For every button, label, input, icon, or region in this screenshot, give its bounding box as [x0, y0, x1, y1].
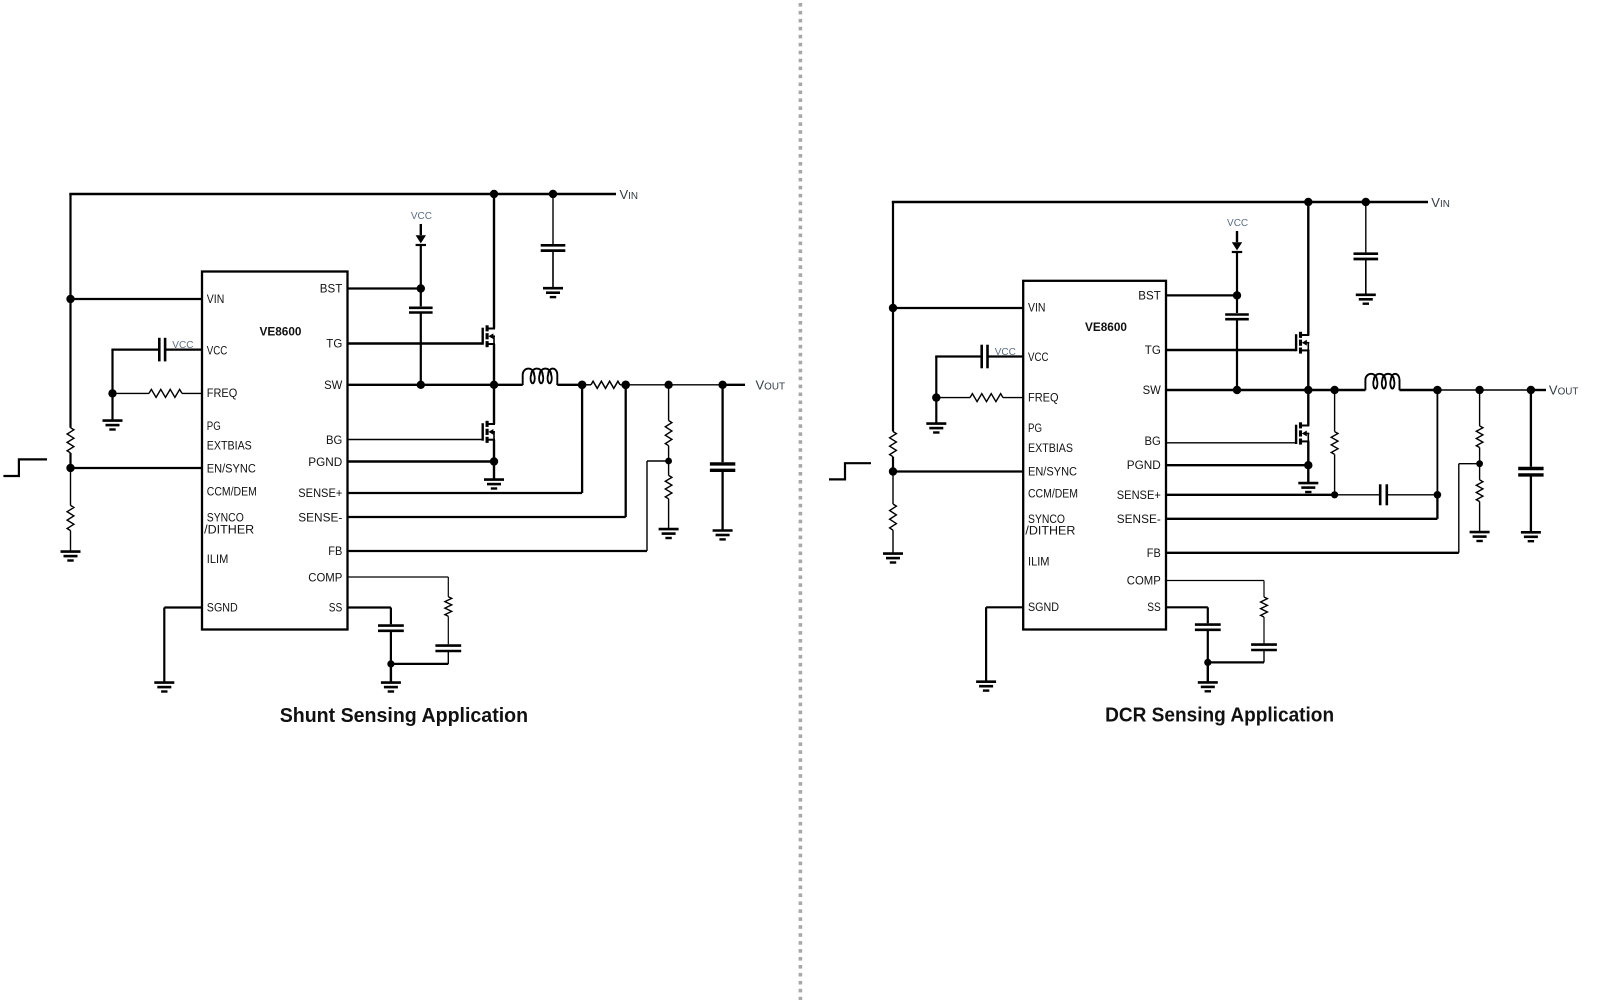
svg-text:VIN: VIN: [620, 187, 639, 202]
svg-text:SGND: SGND: [207, 603, 238, 615]
svg-text:VIN: VIN: [1431, 195, 1450, 210]
svg-text:PG: PG: [1028, 423, 1042, 435]
svg-text:Shunt Sensing Application: Shunt Sensing Application: [280, 705, 528, 727]
svg-text:PGND: PGND: [308, 457, 342, 469]
left shunt circuit: wire SW: [348, 384, 523, 386]
left shunt circuit: wire VOUT node: [626, 384, 723, 386]
svg-text:SGND: SGND: [1028, 602, 1059, 614]
right DCR circuit: resistor R-FREQ: [936, 397, 970, 399]
right DCR circuit: capacitor C-IN (input cap): [1362, 198, 1370, 206]
right DCR circuit: op-amp/controller U1 VE8600 box: [1023, 281, 1166, 630]
left shunt circuit: wire SS: [348, 606, 391, 608]
left shunt circuit: capacitor C-IN (input cap): [549, 190, 557, 198]
right DCR circuit: wire SS: [1166, 606, 1208, 608]
right DCR circuit: node SW junctions: [1233, 386, 1241, 394]
svg-text:BST: BST: [320, 284, 343, 296]
left shunt circuit: wire Q2 drain to SW: [493, 385, 495, 424]
left shunt circuit: ground C-IN: [543, 288, 563, 297]
svg-text:FB: FB: [328, 546, 342, 558]
svg-text:CCM/DEM: CCM/DEM: [207, 486, 257, 498]
right DCR circuit: diode D1 from VCC: [1236, 231, 1238, 242]
right DCR circuit: wire FB: [1166, 552, 1459, 554]
svg-text:COMP: COMP: [1127, 576, 1161, 588]
svg-text:VIN: VIN: [207, 294, 225, 306]
left shunt circuit: wire Q1 source to SW: [493, 344, 495, 385]
svg-text:BG: BG: [326, 435, 342, 447]
right DCR circuit: wire Q2 source to PGND: [1307, 441, 1309, 465]
svg-text:SYNCO: SYNCO: [207, 512, 244, 524]
right DCR circuit: node C-DCR / SENSE- junction: [1434, 491, 1442, 499]
left shunt circuit: wire SENSE-: [348, 516, 626, 518]
left shunt circuit: left vertical wire from VIN rail: [69, 194, 71, 428]
left shunt circuit: wire SENSE+ riser: [581, 385, 583, 493]
svg-text:/DITHER: /DITHER: [1025, 525, 1075, 537]
right DCR circuit: resistor R-COMP: [1263, 581, 1265, 598]
right DCR circuit: wire EN/SYNC: [893, 470, 1023, 472]
right DCR circuit: wire SENSE+: [1166, 494, 1335, 496]
page separator dashed line: [799, 3, 803, 1000]
left shunt circuit: resistor R-COMP: [447, 577, 449, 597]
svg-text:TG: TG: [326, 339, 342, 351]
left shunt circuit: node FREQ junction: [108, 389, 116, 397]
left shunt circuit: resistor R-SENSE (shunt): [591, 381, 620, 388]
svg-text:VCC: VCC: [1028, 352, 1049, 364]
right DCR circuit: wire COMP network to SS node: [1207, 661, 1264, 663]
left shunt circuit: inductor L1: [523, 369, 558, 385]
right DCR circuit: wire SW: [1166, 389, 1365, 391]
right DCR circuit: resistor R-EN2 (lower EN divider): [892, 472, 894, 505]
left shunt circuit: transistor Q2 (low-side NMOS): [482, 423, 484, 441]
left shunt circuit: node Q1 drain at rail: [490, 190, 498, 198]
left shunt circuit: wire VCC corner down: [111, 350, 113, 394]
svg-text:COMP: COMP: [308, 572, 342, 584]
left shunt circuit: node output cap junction: [718, 381, 726, 389]
right DCR circuit: wire SENSE-: [1166, 518, 1437, 520]
left shunt circuit: VIN rail: [69, 193, 616, 195]
right DCR circuit: resistor R-DCR sense: [1334, 390, 1336, 432]
svg-text:VOUT: VOUT: [756, 378, 786, 393]
svg-text:FB: FB: [1147, 548, 1161, 560]
right DCR circuit: ground PGND: [1307, 465, 1309, 483]
left shunt circuit: wire BST: [348, 287, 421, 289]
right DCR circuit: node FREQ junction: [932, 393, 940, 401]
svg-text:SS: SS: [329, 603, 343, 615]
svg-text:FREQ: FREQ: [1028, 393, 1059, 405]
left shunt circuit: wire SENSE- riser: [625, 385, 627, 517]
left shunt circuit: ground PGND: [493, 462, 495, 480]
svg-text:SENSE-: SENSE-: [1117, 514, 1161, 526]
left shunt circuit: resistor R-FB2 (lower divider): [668, 461, 670, 475]
right DCR circuit: node Q1 drain at rail: [1304, 198, 1312, 206]
left shunt circuit: resistor R-EN1 (upper EN divider): [67, 428, 74, 453]
left shunt circuit: ground SS node: [390, 664, 392, 683]
svg-text:VE8600: VE8600: [260, 325, 302, 339]
left shunt circuit: node BST junction: [417, 284, 425, 292]
svg-text:EN/SYNC: EN/SYNC: [1028, 467, 1077, 479]
right DCR circuit: ground C-IN: [1356, 295, 1376, 304]
right DCR circuit: wire Q2 drain to SW: [1307, 390, 1309, 426]
right DCR circuit: wire VCC corner down: [935, 357, 937, 398]
svg-text:SW: SW: [324, 380, 342, 392]
left shunt circuit: capacitor C-VCC: [111, 349, 159, 351]
left shunt circuit: wire TG: [348, 342, 483, 344]
left shunt circuit: wire VIN pin: [71, 298, 203, 300]
right DCR circuit: wire VOUT stub: [1531, 389, 1546, 391]
left shunt circuit: capacitor C-SS: [390, 608, 392, 625]
svg-text:EXTBIAS: EXTBIAS: [1028, 443, 1073, 455]
left shunt circuit: op-amp/controller U1 VE8600 box: [202, 272, 348, 630]
right DCR circuit: node EN/SYNC junction: [889, 467, 897, 475]
svg-text:SENSE-: SENSE-: [298, 512, 342, 524]
left shunt circuit: capacitor C-BST: [420, 289, 422, 307]
left shunt circuit: ground C-OUT: [713, 531, 733, 540]
svg-text:PG: PG: [207, 421, 221, 433]
right DCR circuit: pulse source symbol (EN drive): [829, 463, 871, 479]
right DCR circuit: resistor R-EN1 (upper EN divider): [890, 432, 897, 457]
svg-text:SENSE+: SENSE+: [298, 488, 342, 500]
right DCR circuit: node divider junction: [1475, 386, 1483, 394]
right DCR circuit: ground divider: [1470, 532, 1490, 541]
right DCR circuit: wire PGND: [1166, 464, 1308, 466]
right DCR circuit: capacitor C-SS: [1207, 607, 1209, 623]
svg-text:SS: SS: [1147, 602, 1161, 614]
right DCR circuit: wire SGND: [986, 606, 1023, 608]
left shunt circuit: node sense- junction (VOUT node): [621, 381, 630, 390]
left shunt circuit: wire COMP: [348, 576, 449, 578]
right DCR circuit: wire VOUT node: [1437, 389, 1531, 391]
left shunt circuit: wire Q2 source to PGND: [493, 440, 495, 462]
right DCR circuit: left vertical wire from VIN rail: [892, 202, 894, 432]
right DCR circuit: node BST junction: [1233, 291, 1241, 299]
left shunt circuit: ground at FREQ node: [111, 393, 113, 420]
left shunt circuit: resistor R-FREQ: [113, 392, 150, 394]
right DCR circuit: resistor R-FB1 (upper divider): [1479, 390, 1481, 426]
right DCR circuit: node DCR R-C junction: [1331, 491, 1338, 498]
svg-text:VIN: VIN: [1028, 302, 1046, 314]
right DCR circuit: node VIN-pin junction: [889, 304, 897, 312]
svg-text:EXTBIAS: EXTBIAS: [207, 440, 252, 452]
left shunt circuit: node SW junctions: [417, 381, 425, 389]
left shunt circuit: pulse source symbol (EN drive): [3, 459, 47, 476]
svg-text:ILIM: ILIM: [1028, 557, 1050, 569]
left shunt circuit: diode D1 from VCC: [420, 224, 422, 235]
left shunt circuit: capacitor C-OUT: [721, 385, 723, 462]
svg-text:VCC: VCC: [1227, 218, 1248, 229]
right DCR circuit: ground EN divider: [883, 554, 903, 563]
svg-text:ILIM: ILIM: [207, 554, 229, 566]
left shunt circuit: node SS/COMP junction: [387, 660, 394, 667]
svg-text:BG: BG: [1145, 436, 1161, 448]
svg-text:DCR Sensing Application: DCR Sensing Application: [1105, 705, 1334, 727]
right DCR circuit: ground SGND: [976, 682, 996, 691]
svg-text:VCC: VCC: [172, 340, 193, 351]
svg-text:FREQ: FREQ: [207, 388, 238, 400]
right DCR circuit: inductor L1: [1365, 374, 1399, 390]
svg-text:VOUT: VOUT: [1549, 383, 1579, 398]
right DCR circuit: wire Q1 source to SW: [1307, 350, 1309, 390]
left shunt circuit: node sense+ junction: [578, 381, 587, 390]
right DCR circuit: node DCR-R junction on SW: [1330, 386, 1338, 394]
svg-text:SYNCO: SYNCO: [1028, 514, 1065, 526]
svg-text:SENSE+: SENSE+: [1117, 490, 1161, 502]
left shunt circuit: node PGND junction: [490, 457, 498, 465]
svg-text:VCC: VCC: [411, 211, 432, 222]
left shunt circuit: ground divider: [659, 529, 679, 538]
right DCR circuit: node FB junction: [1476, 460, 1483, 467]
right DCR circuit: wire BG: [1166, 442, 1296, 444]
right DCR circuit: wire junction riser to SW: [1436, 390, 1438, 495]
svg-text:VCC: VCC: [995, 347, 1016, 358]
left shunt circuit: wire FB: [348, 550, 648, 552]
right DCR circuit: transistor Q2 (low-side NMOS): [1295, 425, 1297, 444]
right DCR circuit: node SS/COMP junction: [1204, 659, 1211, 666]
left shunt circuit: node divider junction: [664, 381, 672, 389]
svg-text:VCC: VCC: [207, 346, 228, 358]
left shunt circuit: wire SW to sense resistor: [557, 384, 582, 386]
right DCR circuit: ground C-OUT: [1521, 532, 1541, 541]
left shunt circuit: wire EN/SYNC: [71, 467, 203, 469]
svg-text:EN/SYNC: EN/SYNC: [207, 464, 256, 476]
right DCR circuit: wire COMP: [1166, 580, 1264, 582]
right DCR circuit: wire VIN pin: [893, 307, 1023, 309]
left shunt circuit: wire SENSE+: [348, 492, 583, 494]
left shunt circuit: node EN/SYNC junction: [66, 464, 74, 472]
left shunt circuit: resistor R-EN2 (lower EN divider): [70, 468, 72, 505]
svg-text:PGND: PGND: [1127, 460, 1161, 472]
right DCR circuit: VIN rail: [892, 201, 1428, 203]
left shunt circuit: wire Q1 drain to VIN rail: [493, 194, 495, 329]
svg-text:CCM/DEM: CCM/DEM: [1028, 489, 1078, 501]
left shunt circuit: transistor Q1 (high-side NMOS): [482, 328, 484, 345]
right DCR circuit: ground SS node: [1207, 662, 1209, 682]
right DCR circuit: wire BST: [1166, 294, 1237, 296]
left shunt circuit: wire VOUT stub: [723, 384, 745, 386]
left shunt circuit: capacitor C-COMP: [447, 616, 449, 644]
right DCR circuit: wire TG: [1166, 349, 1296, 351]
right DCR circuit: resistor R-FB2 (lower divider): [1479, 464, 1481, 480]
left shunt circuit: resistor R-FB1 (upper divider): [668, 385, 670, 421]
left shunt circuit: wire PGND: [348, 460, 495, 462]
svg-text:SW: SW: [1143, 385, 1161, 397]
svg-text:VE8600: VE8600: [1085, 320, 1127, 334]
svg-text:/DITHER: /DITHER: [204, 524, 254, 536]
svg-text:BST: BST: [1138, 290, 1161, 302]
right DCR circuit: transistor Q1 (high-side NMOS): [1295, 334, 1297, 351]
left shunt circuit: ground SGND: [154, 683, 174, 692]
left shunt circuit: node VIN-pin junction: [66, 295, 74, 303]
left shunt circuit: wire COMP network to SS node: [390, 663, 448, 665]
svg-text:TG: TG: [1145, 345, 1161, 357]
right DCR circuit: capacitor C-COMP: [1263, 617, 1265, 643]
right DCR circuit: node inductor-out junction: [1433, 386, 1442, 395]
right DCR circuit: capacitor C-OUT: [1530, 390, 1532, 467]
right DCR circuit: wire Q1 drain to VIN rail: [1307, 202, 1309, 335]
right DCR circuit: wire inductor out: [1400, 389, 1438, 391]
left shunt circuit: ground EN divider: [61, 552, 81, 561]
left shunt circuit: node FB junction: [665, 458, 672, 465]
left shunt circuit: wire SGND: [164, 606, 202, 608]
right DCR circuit: node PGND junction: [1304, 461, 1312, 469]
left shunt circuit: wire BG: [348, 439, 483, 441]
right DCR circuit: ground at FREQ node: [935, 398, 937, 424]
right DCR circuit: node output cap junction: [1527, 386, 1535, 394]
right DCR circuit: capacitor C-DCR sense: [1335, 494, 1381, 496]
right DCR circuit: capacitor C-BST: [1236, 295, 1238, 313]
right DCR circuit: capacitor C-VCC: [935, 355, 982, 357]
